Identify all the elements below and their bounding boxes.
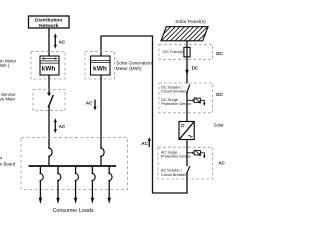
svg-text:AC: AC xyxy=(59,39,66,44)
AC section dashed box xyxy=(158,147,213,179)
consumption meter dashed box xyxy=(31,52,65,80)
main service switch dashed box xyxy=(33,90,65,111)
wire fuse to DC isolator with DC flow arrow xyxy=(185,57,199,84)
label AC surge xyxy=(161,150,191,158)
incomer breaker utility xyxy=(48,147,52,165)
main service isolator switch xyxy=(47,93,53,108)
svg-text:AC: AC xyxy=(59,124,66,129)
wire solar meter riser xyxy=(100,36,102,56)
DC SPD S1 xyxy=(187,97,206,106)
svg-text:Solar Generation: Solar Generation xyxy=(116,61,152,66)
svg-text:AC: AC xyxy=(86,100,93,105)
svg-text:AC Isolator /: AC Isolator / xyxy=(161,168,183,172)
branch breaker 1 xyxy=(39,167,44,205)
incomer breaker solar xyxy=(100,147,104,165)
label DC isolator xyxy=(161,85,187,93)
svg-text:Circuit Breaker: Circuit Breaker xyxy=(161,90,187,94)
svg-text:Meter (kWh): Meter (kWh) xyxy=(116,66,142,71)
generation meter dashed box xyxy=(85,52,115,80)
svg-text:Protection Device: Protection Device xyxy=(161,155,191,159)
svg-text:DC: DC xyxy=(216,92,223,97)
wire DC isolator to inverter xyxy=(186,93,188,122)
svg-text:DC Surge: DC Surge xyxy=(161,98,178,102)
branch breaker 2 xyxy=(56,167,61,205)
label distribution board xyxy=(0,156,16,167)
AC flow arrow solar down xyxy=(86,100,97,111)
label mains service xyxy=(0,92,16,102)
AC flow arrow to board xyxy=(54,118,66,133)
solar panel PV1 xyxy=(155,25,219,43)
wire top link xyxy=(101,35,154,37)
branch breaker 5 xyxy=(108,167,113,205)
DC isolator dashed box xyxy=(159,83,213,113)
wire AC isolator down xyxy=(186,173,188,194)
wire utility drop xyxy=(48,28,50,56)
wire switch to board xyxy=(48,107,50,149)
wire bottom link xyxy=(153,192,188,194)
label DC surge xyxy=(161,98,191,106)
bus bar xyxy=(29,165,117,167)
fuse F1 xyxy=(184,47,190,57)
branch breaker 3 xyxy=(74,167,79,205)
DC string dashed box xyxy=(159,44,213,59)
svg-text:Distribution Board: Distribution Board xyxy=(0,162,16,167)
AC SPD S2 xyxy=(187,150,206,159)
svg-text:Consumer Loads: Consumer Loads xyxy=(52,208,93,214)
svg-text:AC Surge: AC Surge xyxy=(161,150,177,154)
distribution network box xyxy=(29,16,70,29)
svg-text:Solar Inverter: Solar Inverter xyxy=(214,123,225,128)
svg-text:kWh: kWh xyxy=(93,65,107,72)
inverter U1 xyxy=(179,122,194,140)
wire solar meter to board xyxy=(100,76,102,149)
svg-text:AC: AC xyxy=(141,141,148,146)
svg-text:AC: AC xyxy=(219,160,226,165)
svg-text:DC Isolator /: DC Isolator / xyxy=(161,85,183,89)
wire meter to main switch xyxy=(48,76,50,94)
branch breaker 4 xyxy=(91,167,96,205)
svg-text:DC: DC xyxy=(192,65,199,70)
svg-text:Protection Device: Protection Device xyxy=(161,102,191,106)
DC isolator switch Q1 xyxy=(186,84,190,93)
wire AC return riser xyxy=(152,36,154,194)
AC flow arrow return up xyxy=(141,137,151,147)
svg-text:( kWh ): ( kWh ) xyxy=(0,63,10,68)
svg-text:kWh: kWh xyxy=(42,65,56,72)
AC isolator switch Q2 xyxy=(186,166,190,174)
wire inverter to AC section xyxy=(186,140,188,167)
wire panel to fuse xyxy=(186,41,188,48)
svg-text:Protective Main: Protective Main xyxy=(0,96,15,101)
svg-text:Solar Panel(s): Solar Panel(s) xyxy=(175,19,206,25)
svg-text:Distribution: Distribution xyxy=(35,18,62,24)
label generation meter xyxy=(116,61,152,72)
generation meter M2 xyxy=(91,56,111,75)
AC import/export flow arrow xyxy=(54,33,66,48)
svg-text:DC: DC xyxy=(216,51,223,56)
svg-text:Circuit Breaker: Circuit Breaker xyxy=(161,173,187,177)
consumption meter M1 xyxy=(40,56,59,75)
svg-text:DC Fuse(s): DC Fuse(s) xyxy=(163,49,184,54)
label consumption meter xyxy=(0,59,17,69)
distribution board dashed box xyxy=(21,138,128,190)
label AC isolator xyxy=(161,168,187,176)
